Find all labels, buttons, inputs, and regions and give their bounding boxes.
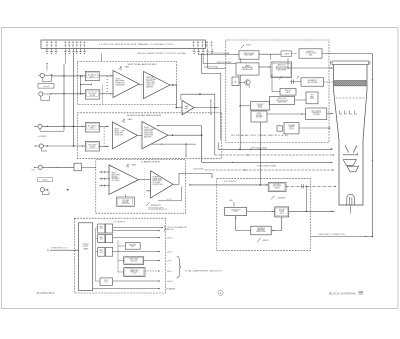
block power transformer [79, 223, 93, 291]
capacitor C1 cal wire [290, 81, 302, 83]
wire J5 to attenuator [43, 145, 85, 147]
CRT vertical deflection plates [343, 145, 358, 155]
wire delay top link [181, 93, 215, 95]
svg-text:+12.6 V: +12.6 V [167, 281, 174, 283]
connector J6 z input [34, 165, 74, 169]
strip drop pins left [46, 48, 86, 54]
arrow marker mid left [67, 189, 69, 191]
svg-text:INPUT: INPUT [90, 76, 95, 78]
Z gain adjust [126, 164, 137, 168]
op-amp horizontal output amplifier U5 [142, 122, 168, 149]
svg-text:+ 50 mV: + 50 mV [43, 86, 50, 88]
svg-text:LEVEL SHIFT: LEVEL SHIFT [153, 180, 163, 182]
line input power [48, 248, 79, 252]
svg-text:AND CRT: AND CRT [167, 228, 174, 231]
wire heater supply to CRT [289, 210, 335, 212]
svg-text:UNBLANKING: UNBLANKING [193, 167, 205, 170]
CRT storage mesh [335, 81, 367, 86]
svg-text:POWER INPUT 115 V: POWER INPUT 115 V [51, 248, 69, 250]
connector J4 horizontal input [34, 124, 64, 131]
wire U1 to U2 [139, 84, 144, 86]
svg-text:ADJ: ADJ [230, 199, 233, 202]
svg-text:RECT: RECT [104, 280, 108, 282]
op-amp Z output amplifier U7 [151, 171, 174, 198]
svg-text:TRIGGER: TRIGGER [257, 104, 264, 106]
svg-text:INTENSITY: INTENSITY [112, 178, 121, 180]
svg-text:NETWORK: NETWORK [122, 203, 130, 205]
block hold gate [280, 88, 296, 95]
block input coupling CH2 [85, 123, 99, 133]
block feedback amplifier [251, 226, 271, 235]
svg-text:+75 V: +75 V [167, 261, 173, 263]
wire grid bias dash to CRT [286, 185, 337, 187]
svg-text:H.V. SUPPLY: H.V. SUPPLY [224, 181, 237, 183]
intensity adjust [146, 202, 162, 207]
wire trigger chain [239, 58, 241, 63]
page number circle [218, 290, 223, 295]
gain adjust vertical [119, 65, 130, 70]
wire attenuator to H amp [100, 145, 110, 147]
wire coupling to H amp [100, 125, 110, 127]
block vert bistable [232, 77, 239, 86]
svg-text:SERIES REG: SERIES REG [129, 259, 138, 261]
svg-text:INPUT: INPUT [90, 128, 95, 130]
op-amp Z input amplifier U6 [109, 165, 139, 194]
svg-text:MULTI HOLDOFF: MULTI HOLDOFF [276, 100, 288, 102]
wire strip to attenuator [101, 53, 103, 61]
svg-text:HORIZ: HORIZ [257, 113, 262, 115]
wire trigger down [258, 110, 260, 111]
svg-text:VOLTS/DIV: VOLTS/DIV [88, 145, 97, 147]
svg-text:A MUX: A MUX [42, 179, 48, 182]
block CRT bias [117, 194, 135, 206]
block delay relay [74, 163, 96, 171]
wire strip to CH2 node [73, 53, 75, 146]
svg-text:CONTROL PLUS: CONTROL PLUS [305, 53, 316, 55]
wire oscillator to HV cap [247, 210, 275, 212]
block sweep generator [271, 62, 292, 78]
block calibrator [301, 78, 324, 86]
remote erase wire [202, 53, 204, 63]
attenuator contacts [107, 76, 108, 92]
svg-text:MOUNT-TO: MOUNT-TO [307, 51, 316, 53]
svg-text:DRIVE DEFL: DRIVE DEFL [146, 83, 156, 85]
gain adjust horizontal [122, 118, 133, 123]
svg-text:BLOCK DIAGRAM: BLOCK DIAGRAM [329, 291, 356, 295]
connector J3 [39, 92, 65, 100]
svg-text:VOLTS/DIV: VOLTS/DIV [88, 93, 97, 95]
block input coupling CH1 [85, 71, 99, 80]
block horizontal display [251, 111, 267, 122]
dashed enclosure HV supply [217, 179, 311, 251]
svg-text:MULT: MULT [280, 213, 284, 215]
HV adjust -6300 [257, 238, 269, 242]
svg-text:LOW PROFILE FRONT PANEL CONNEC: LOW PROFILE FRONT PANEL CONNECTOR [99, 43, 174, 46]
block HV capacitor diode [275, 207, 289, 217]
svg-text:DIODE: DIODE [279, 211, 284, 213]
block HV oscillator [225, 207, 247, 215]
svg-text:GAIN: GAIN [125, 65, 130, 68]
svg-text:+100 V: +100 V [167, 252, 174, 254]
block rectifier low [100, 278, 113, 286]
svg-text:CKT: CKT [133, 273, 136, 275]
calibrator adjust [297, 76, 300, 79]
wire horizontal deflection line 1 [201, 126, 203, 163]
svg-text:L.V. SUPPLY: L.V. SUPPLY [113, 221, 126, 223]
svg-text:POWER: POWER [83, 244, 90, 246]
svg-text:*: * [356, 195, 357, 197]
wire gate under to CRT [288, 67, 333, 69]
wire J4 to coupling [42, 125, 85, 127]
wire calibrator to CRT [324, 81, 334, 83]
wire time base to unblank [158, 187, 181, 201]
svg-text:GAIN: GAIN [132, 164, 137, 167]
wire horizontal out b [151, 143, 197, 145]
Z input stubs [99, 171, 110, 187]
wire erase to sweep generator [259, 66, 271, 68]
svg-text:HORIZ: HORIZ [144, 127, 149, 129]
block flood gun [306, 108, 327, 120]
H attenuator contacts [104, 128, 105, 147]
strip drop pins right [193, 48, 214, 54]
svg-text:HORIZONTAL SIGNAL: HORIZONTAL SIGNAL [257, 164, 276, 167]
block plus gate [281, 51, 292, 56]
wire z line vertical in HV [258, 185, 260, 188]
Z T2 input stub [146, 190, 151, 192]
wire b1 drop [270, 54, 272, 59]
LV internal ties [96, 228, 126, 281]
svg-text:CRT GRID: CRT GRID [112, 180, 120, 182]
wire feedback to oscillator [236, 216, 251, 231]
connector J2 label plate [38, 84, 54, 89]
svg-text:HORIZONTAL AMPLIFIER: HORIZONTAL AMPLIFIER [127, 114, 162, 117]
wire mag feedback [158, 125, 202, 127]
connector J7 mux [38, 178, 53, 195]
block mag vert reg [124, 268, 145, 277]
CRT gun heater [347, 194, 357, 213]
block HV rectifier grid supply [268, 183, 286, 192]
wire tie [80, 76, 82, 94]
transistor Q1 storage [239, 80, 250, 88]
svg-text:CKTS: CKTS [258, 107, 262, 109]
block input attenuator CH1 [85, 90, 100, 99]
svg-text:DC RESTORE: DC RESTORE [153, 184, 163, 186]
wire +12.6 out [113, 280, 161, 282]
block storage level pair [277, 123, 299, 134]
wire U3 to storage verticals [194, 107, 219, 109]
svg-text:ERROR SENS: ERROR SENS [256, 231, 265, 233]
wire attenuator to amp [100, 93, 113, 95]
svg-text:+12.6: +12.6 [104, 282, 108, 284]
block sweep trigger [239, 51, 259, 59]
wire filament out [93, 288, 160, 290]
svg-text:RECT: RECT [99, 237, 103, 239]
svg-text:HORIZ CKT: HORIZ CKT [115, 134, 124, 136]
CRT horizontal deflection plates [343, 160, 358, 172]
wire U6 to U7 [139, 179, 151, 181]
wire vertical deflection line 2 [215, 154, 334, 156]
block trigger level [251, 102, 270, 111]
trigger adjust arrow [241, 43, 252, 48]
svg-text:LONG LIFE: LONG LIFE [130, 260, 137, 262]
svg-text:TO ALL AMPLIFIER CIRCUITS: TO ALL AMPLIFIER CIRCUITS [185, 270, 223, 273]
svg-text:TO CRT: TO CRT [166, 199, 172, 201]
block rectifier +225 [98, 224, 113, 233]
svg-text:SWP TRIGGER: SWP TRIGGER [244, 53, 256, 55]
dashed enclosure storage circuit [226, 40, 329, 143]
svg-text:VERTICAL SIGNAL: VERTICAL SIGNAL [251, 147, 268, 150]
dashed enclosure Z amplifier [96, 160, 186, 214]
svg-text:STORAGE CKT (SEE SECS 5 & 6): STORAGE CKT (SEE SECS 5 & 6) [231, 134, 289, 137]
wire vertical deflection line 1 [218, 148, 332, 150]
sensitivity correction wire [311, 236, 373, 238]
block rectifier +150 [98, 235, 113, 243]
svg-text:LEVEL RESET: LEVEL RESET [277, 70, 286, 72]
title block diagram [329, 291, 363, 295]
intensity trim [271, 196, 286, 200]
svg-text:SUPPLY: SUPPLY [274, 187, 279, 189]
block horizontal attenuator [85, 142, 99, 152]
CRT flood electrodes [340, 111, 357, 115]
svg-text:+225: +225 [100, 228, 103, 230]
wire unblank branch down [185, 144, 187, 156]
wire horizontal out [168, 134, 202, 136]
wire strip to CH1 node [64, 53, 66, 64]
wire horizontal deflection line 2 [205, 169, 334, 171]
svg-text:SIG MIX: SIG MIX [112, 176, 119, 178]
wire J3 to attenuator [52, 93, 85, 95]
dashed enclosure horizontal amplifier [77, 113, 222, 159]
wire storage to CRT [299, 127, 331, 129]
svg-text:+150: +150 [100, 239, 103, 241]
dashed enclosure LV supply [74, 218, 165, 293]
svg-text:+100: +100 [100, 252, 103, 254]
svg-text:RECT: RECT [99, 227, 103, 229]
wire grid-heater link [306, 186, 308, 211]
svg-text:PUSH PULL: PUSH PULL [146, 81, 155, 83]
svg-text:CRT: CRT [310, 95, 313, 97]
wire +100 out [113, 251, 160, 253]
block auto lock multi [270, 96, 295, 104]
svg-text:VERT CTRL: VERT CTRL [130, 272, 138, 274]
op-amp horizontal input amplifier U4 [113, 122, 138, 149]
adj label [230, 199, 235, 207]
dashed enclosure vertical amplifier [77, 62, 176, 105]
wire HV cap down to feedback [271, 217, 282, 231]
wire z output to HV cathode [173, 174, 212, 185]
svg-text:GATE AMPL: GATE AMPL [116, 84, 126, 87]
svg-text:VOLTS: VOLTS [289, 128, 294, 130]
sweep signal wire [207, 53, 209, 68]
svg-text:INPUT: INPUT [83, 246, 88, 248]
svg-text:DRIVE DEFL: DRIVE DEFL [144, 133, 154, 135]
svg-text:LEVEL: LEVEL [258, 106, 263, 108]
block CRT coupling [306, 92, 318, 104]
wire +75 out [144, 260, 160, 262]
connector J5 [35, 144, 49, 151]
svg-text:FILAMENT: FILAMENT [167, 288, 177, 291]
wire auto lock to cplg [295, 99, 307, 101]
wire +150 out [113, 237, 160, 239]
op-amp vertical input amplifier U1 [113, 70, 139, 97]
svg-text:SINGLE SWEEP RESET LOCKOUT SIG: SINGLE SWEEP RESET LOCKOUT SIGNAL [137, 52, 186, 55]
to all circuits bracket [177, 256, 223, 278]
svg-text:-150 V: -150 V [167, 271, 173, 273]
block erase amplifier [236, 63, 259, 75]
gate label wire [259, 53, 281, 55]
svg-text:+150 V: +150 V [167, 238, 174, 240]
connector J2 upper [38, 63, 65, 81]
block rectifier +100 [98, 248, 113, 257]
wire sweep gate loop [202, 53, 221, 140]
svg-text:Z AMPLIFIER: Z AMPLIFIER [141, 161, 161, 164]
svg-text:(LOWER): (LOWER) [38, 136, 47, 138]
interconnect strip J1 [41, 40, 212, 48]
wire hold gate link [272, 91, 280, 93]
wire -150 out [145, 270, 160, 272]
svg-text:NORM EXT: NORM EXT [115, 132, 124, 134]
svg-text:BST: BST [234, 81, 237, 83]
block auto control gate [299, 49, 322, 58]
svg-text:6/25/60: 6/25/60 [37, 291, 56, 295]
trigger pickoff stub [81, 84, 92, 86]
svg-text:VERTICAL AMPLIFIER: VERTICAL AMPLIFIER [128, 63, 158, 66]
svg-text:INPUT: INPUT [112, 173, 117, 175]
svg-text:INPUT: INPUT [115, 129, 120, 131]
wire +225 out [113, 227, 163, 229]
block bias vert reg [125, 243, 140, 250]
svg-text:SET + FLOOD: SET + FLOOD [311, 110, 322, 112]
CRT backplate dashed [336, 97, 365, 99]
svg-text:RECT: RECT [99, 250, 103, 252]
position adjust [210, 99, 216, 115]
op-amp vertical output amplifier U2 [144, 71, 171, 98]
svg-text:REG: REG [131, 246, 134, 248]
svg-text:-6300 V: -6300 V [262, 240, 269, 242]
wire vertical out [170, 84, 176, 86]
sweep adjust [279, 77, 282, 80]
wire gate to CRT corner [322, 54, 373, 237]
svg-text:GAIN: GAIN [128, 118, 133, 121]
trig pickoff signal wire [198, 53, 200, 54]
wire vert out down to gain block [175, 85, 177, 108]
wire display to flood [267, 113, 306, 115]
wire unblank into Z [189, 184, 268, 186]
wire J2 to coupling [52, 75, 85, 77]
op-amp delay line driver U3 [182, 100, 194, 114]
wire hv top junction [261, 149, 263, 185]
wire U4 to U5 [137, 134, 142, 136]
wire display down [259, 122, 261, 185]
CRT faceplate bar [331, 61, 371, 65]
svg-text:FROM TIME-BASE: FROM TIME-BASE [149, 206, 164, 209]
block mag amplifier reg [124, 257, 144, 265]
wire flood gun to CRT [327, 113, 333, 115]
wire coupling to amp [99, 75, 113, 77]
svg-text:SERIES REG: SERIES REG [130, 270, 139, 272]
svg-text:SENSITIVITY CORRECTION: SENSITIVITY CORRECTION [319, 234, 346, 236]
svg-text:PUSH PULL: PUSH PULL [144, 131, 153, 133]
CRT envelope [334, 65, 368, 206]
